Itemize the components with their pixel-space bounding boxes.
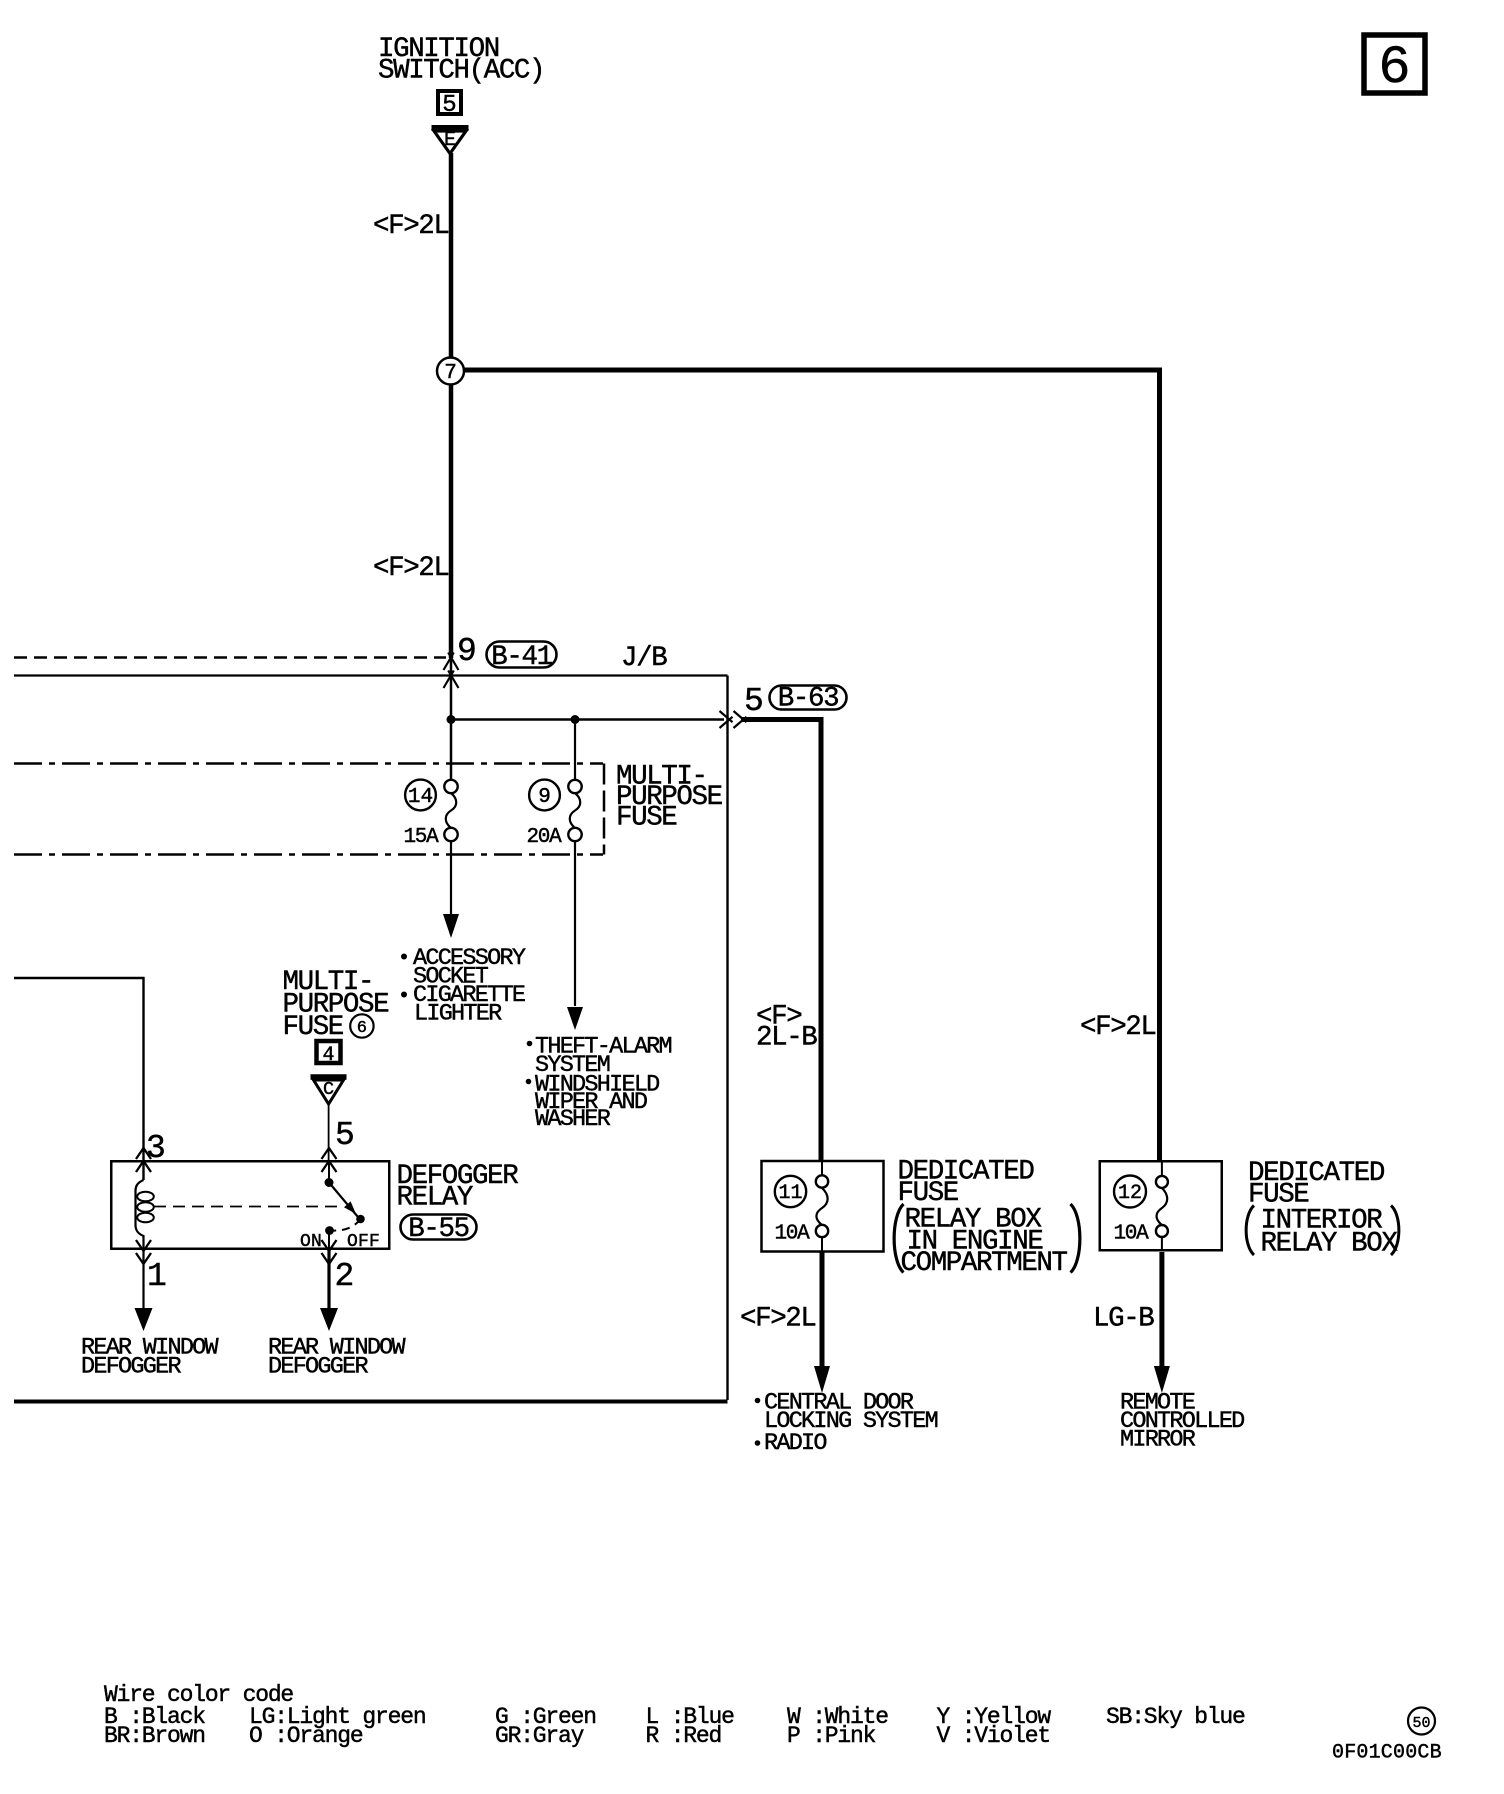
svg-text:5: 5 — [744, 683, 764, 720]
svg-text:4: 4 — [322, 1044, 334, 1067]
svg-text:P :Pink: P :Pink — [787, 1723, 876, 1749]
svg-text:12: 12 — [1118, 1182, 1142, 1205]
svg-text:MIRROR: MIRROR — [1120, 1427, 1196, 1454]
svg-text:E: E — [444, 129, 456, 152]
svg-text:11: 11 — [778, 1182, 802, 1205]
svg-text:14: 14 — [408, 786, 433, 809]
svg-text:FUSE: FUSE — [283, 1012, 344, 1043]
svg-text:1: 1 — [147, 1258, 167, 1295]
svg-text:6: 6 — [1378, 38, 1410, 99]
svg-text:BR:Brown: BR:Brown — [104, 1723, 205, 1749]
svg-text:<F>2L: <F>2L — [740, 1304, 816, 1335]
svg-text:COMPARTMENT: COMPARTMENT — [901, 1248, 1068, 1279]
svg-text:2: 2 — [335, 1258, 355, 1295]
svg-text:OFF: OFF — [347, 1232, 380, 1252]
svg-text:RELAY: RELAY — [397, 1183, 473, 1214]
svg-text:2L-B: 2L-B — [756, 1023, 817, 1054]
svg-text:RADIO: RADIO — [764, 1430, 826, 1457]
svg-text:10A: 10A — [775, 1223, 811, 1246]
svg-text:FUSE: FUSE — [616, 803, 677, 834]
svg-text:O :Orange: O :Orange — [249, 1723, 363, 1749]
svg-text:RELAY BOX: RELAY BOX — [1261, 1229, 1399, 1260]
svg-text:LG-B: LG-B — [1093, 1304, 1154, 1335]
svg-text:B-63: B-63 — [778, 684, 838, 715]
svg-text:R :Red: R :Red — [646, 1723, 722, 1749]
svg-text:20A: 20A — [527, 826, 563, 849]
svg-text:9: 9 — [538, 786, 551, 809]
svg-text:SWITCH(ACC): SWITCH(ACC) — [378, 56, 544, 87]
svg-text:B-55: B-55 — [408, 1214, 468, 1245]
svg-text:50: 50 — [1412, 1715, 1430, 1732]
svg-text:5: 5 — [335, 1117, 355, 1154]
svg-text:WASHER: WASHER — [535, 1106, 611, 1133]
svg-text:15A: 15A — [404, 826, 440, 849]
svg-text:ON: ON — [300, 1232, 322, 1252]
svg-text:10A: 10A — [1114, 1223, 1150, 1246]
svg-text:DEFOGGER: DEFOGGER — [268, 1354, 368, 1381]
svg-text:6: 6 — [357, 1019, 367, 1038]
svg-text:V :Violet: V :Violet — [937, 1723, 1050, 1749]
svg-text:C: C — [323, 1079, 334, 1100]
svg-text:LIGHTER: LIGHTER — [414, 1001, 502, 1028]
svg-text:7: 7 — [444, 362, 457, 385]
svg-text:<F>2L: <F>2L — [373, 211, 449, 242]
svg-text:<F>2L: <F>2L — [1080, 1012, 1156, 1043]
svg-text:9: 9 — [457, 633, 477, 670]
svg-text:0F01C00CB: 0F01C00CB — [1332, 1742, 1442, 1765]
svg-text:DEFOGGER: DEFOGGER — [81, 1354, 181, 1381]
svg-text:B-41: B-41 — [491, 642, 552, 673]
svg-text:SB:Sky blue: SB:Sky blue — [1106, 1704, 1245, 1730]
svg-text:J/B: J/B — [621, 643, 667, 674]
svg-text:GR:Gray: GR:Gray — [495, 1723, 585, 1749]
svg-text:<F>2L: <F>2L — [373, 553, 449, 584]
svg-text:5: 5 — [442, 92, 456, 119]
